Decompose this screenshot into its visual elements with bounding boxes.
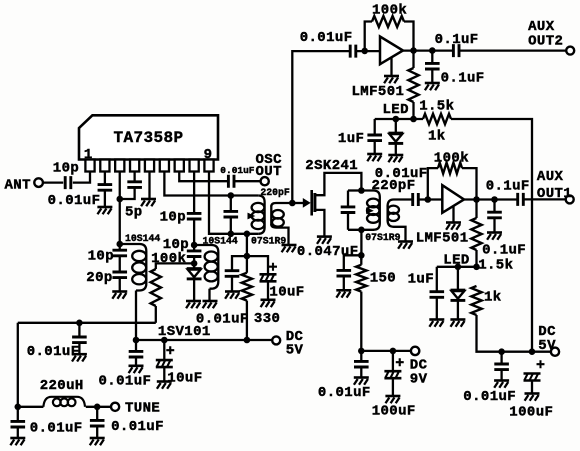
- ground (0.047uF): [336, 289, 351, 292]
- node 9V rail / 0.01uF: [358, 348, 365, 355]
- capacitor 0.1uF (AUX1 coupling): [518, 193, 524, 206]
- wire pin5 down: [148, 172, 150, 199]
- svg-text:TUNE: TUNE: [125, 401, 160, 417]
- capacitor 0.01uF (osc bias): [225, 271, 240, 277]
- wire cap to OSC OUT terminal: [234, 180, 261, 182]
- ground (0.01uF tune right): [90, 437, 105, 440]
- node 5V rail / 100uF (right): [529, 348, 536, 355]
- svg-text:+: +: [536, 357, 545, 374]
- wire LED node (ch2): [437, 266, 477, 268]
- wire branch to 0.01uF (osc): [232, 256, 247, 271]
- svg-text:OUT2: OUT2: [528, 34, 563, 50]
- ground (0.01uF tune bus): [72, 353, 87, 356]
- resistor 150: [356, 265, 366, 292]
- terminal DC 5V (right): [551, 348, 559, 356]
- ground (T1 secondary): [282, 244, 297, 247]
- node 5V/0.01uF (left): [133, 337, 140, 344]
- wire tank bottom down: [360, 230, 362, 260]
- svg-text:LMF501: LMF501: [416, 231, 469, 247]
- wire opamp2 gnd stem: [452, 206, 454, 222]
- svg-text:07S1R9: 07S1R9: [365, 232, 400, 243]
- capacitor 10uF (osc bias): [260, 274, 277, 281]
- svg-text:1uF: 1uF: [338, 131, 364, 147]
- terminal ANT: [34, 178, 43, 187]
- transformer T2 07S1R9 primary: [361, 191, 379, 230]
- wire 5V rail left: [136, 339, 272, 341]
- node pin3/5p junction: [116, 196, 123, 203]
- capacitor 0.01uF (tune bus): [78, 323, 80, 337]
- transformer T2 slug arrow: [366, 207, 374, 214]
- node opamp2 output: [473, 196, 480, 203]
- wire 100k to tune bus: [155, 306, 157, 323]
- capacitor 0.01uF (OSC OUT coupling): [228, 175, 234, 188]
- ground (LED1): [388, 154, 403, 157]
- terminal DC 9V: [411, 347, 419, 355]
- capacitor 0.1uF shunt (opamp1 out): [431, 51, 433, 64]
- svg-text:100uF: 100uF: [509, 405, 553, 421]
- wire 10p to varicap node: [193, 257, 195, 269]
- capacitor (FET tank): [347, 191, 349, 207]
- wire branch to 0.047uF cap: [344, 255, 362, 270]
- wire C 10p to pin1: [73, 172, 90, 183]
- ground (varicap): [186, 300, 201, 303]
- resistor 100k feedback (opamp2): [428, 168, 438, 199]
- svg-text:220pF: 220pF: [260, 187, 290, 198]
- wire pin2 cap to ground: [104, 190, 106, 207]
- svg-text:0.047uF: 0.047uF: [297, 244, 359, 260]
- svg-text:0.01uF: 0.01uF: [463, 389, 516, 405]
- node 5V/10uF (left): [161, 337, 168, 344]
- capacitor 0.01uF (5V left): [135, 340, 137, 351]
- wire varicap node to 100k: [156, 263, 194, 269]
- capacitor 10p (pin8 upper): [187, 213, 202, 219]
- ground (1uF ch1): [367, 153, 382, 156]
- wire osc coil to ground: [208, 289, 210, 301]
- svg-text:+: +: [166, 343, 175, 360]
- node 5V rail / 0.01uF (right): [498, 348, 505, 355]
- wire 1k to 5V rail (ch2): [477, 315, 552, 352]
- svg-text:10p: 10p: [160, 210, 186, 226]
- svg-text:AUX: AUX: [537, 169, 564, 185]
- capacitor 10p (antenna coupling): [65, 176, 71, 189]
- ground (T2 secondary): [398, 240, 413, 243]
- wire cap to opamp1 input: [356, 50, 380, 52]
- transistor Q1 2SK241 gate wire: [292, 202, 303, 204]
- wire 330 to 5V rail: [246, 301, 248, 340]
- wire opamp1 output: [403, 49, 453, 51]
- svg-text:0.1uF: 0.1uF: [486, 179, 530, 195]
- capacitor 10p (divider top): [112, 250, 127, 256]
- node tune left: [14, 404, 21, 411]
- IC U1 pin 5: [145, 160, 154, 172]
- capacitor 0.01uF/220pF (opamp2 input): [413, 193, 419, 206]
- capacitor 0.047uF: [337, 270, 352, 276]
- ground (0.01uF 9V): [354, 376, 369, 379]
- svg-text:07S1R9: 07S1R9: [251, 236, 286, 247]
- svg-text:TA7358P: TA7358P: [113, 129, 183, 147]
- node LED (ch2): [455, 264, 462, 271]
- capacitor 1uF (ch2): [436, 267, 438, 292]
- svg-text:+: +: [395, 355, 404, 372]
- capacitor 100uF (5V right): [524, 374, 541, 381]
- ground (0.1uF shunt ch2): [487, 231, 502, 234]
- svg-text:1uF: 1uF: [408, 272, 434, 288]
- capacitor 5p (pin4): [127, 182, 142, 188]
- wire 9V rail: [361, 350, 411, 352]
- IC U1 pin 3: [115, 160, 124, 172]
- node 330 branch: [244, 253, 251, 260]
- svg-text:100uF: 100uF: [372, 404, 416, 420]
- wire 150 to 9V rail: [360, 292, 362, 351]
- svg-text:LED: LED: [383, 102, 409, 118]
- node tank top / 220pF: [228, 192, 235, 199]
- ground (100uF 9V): [385, 395, 400, 398]
- terminal AUX OUT1: [566, 195, 574, 203]
- wire 220uH to TUNE terminal: [86, 406, 111, 408]
- node output/0.1uF shunt: [429, 47, 436, 54]
- node TUNE/0.01uF: [94, 404, 101, 411]
- svg-text:10uF: 10uF: [269, 285, 304, 301]
- capacitor 10p (pin8 lower): [187, 251, 202, 257]
- terminal OSC OUT: [261, 177, 269, 185]
- svg-text:10p: 10p: [88, 249, 114, 265]
- ground (LED2): [450, 318, 465, 321]
- svg-text:220uH: 220uH: [40, 378, 84, 394]
- node pin8 / osc coil top: [191, 242, 198, 249]
- inductor L1 10S144 antenna coil: [120, 244, 147, 291]
- IC U1 pin 6: [160, 160, 169, 172]
- wire opamp2 output: [464, 198, 517, 200]
- svg-text:2SK241: 2SK241: [305, 158, 358, 174]
- op-amp U3 LMF501 triangle: [442, 185, 464, 213]
- resistor 1.5k (ch2): [475, 200, 477, 219]
- wire pin6 to oscillator tank top: [164, 172, 258, 196]
- svg-text:0.01uF: 0.01uF: [27, 344, 80, 360]
- capacitor 0.1uF shunt (opamp2 out): [493, 200, 495, 213]
- wire pin3 down: [119, 172, 121, 251]
- capacitor 1uF (ch1): [374, 119, 376, 135]
- wire 1k to right rail: [451, 119, 532, 352]
- node T2 tank bottom: [358, 227, 365, 234]
- IC U1 pin 4: [130, 160, 139, 172]
- svg-text:1.5k: 1.5k: [478, 258, 513, 274]
- ground (pin2 cap): [97, 206, 112, 209]
- node opamp1 input: [361, 48, 368, 55]
- svg-text:1k: 1k: [428, 129, 446, 145]
- ground (1uF ch2): [429, 318, 444, 321]
- svg-text:LMF501: LMF501: [352, 84, 405, 100]
- svg-text:5V: 5V: [538, 338, 556, 354]
- ground (10uF osc): [261, 298, 276, 301]
- wire tank top to tank cap: [348, 189, 361, 191]
- wire cap to opamp2 input: [418, 198, 442, 200]
- transformer T1 07S1R9 primary: [258, 196, 264, 234]
- svg-text:100k: 100k: [434, 151, 469, 167]
- node 5V/330: [244, 337, 251, 344]
- wire tank bottom branch down (330): [246, 234, 248, 273]
- wire branch to 10uF (osc): [247, 256, 268, 274]
- node 9V rail / 100uF: [390, 348, 397, 355]
- node 220pF bottom: [228, 231, 235, 238]
- svg-text:0.01uF: 0.01uF: [111, 419, 164, 435]
- ground (divider): [112, 290, 127, 293]
- Q1 channel bar: [313, 193, 316, 212]
- svg-text:5V: 5V: [286, 343, 304, 359]
- capacitor 0.01uF (pin2): [98, 185, 113, 191]
- terminal TUNE: [111, 403, 119, 411]
- capacitor 0.01uF (5V right): [500, 352, 502, 364]
- LED D1: [395, 119, 397, 133]
- node FET gate / T1 secondary: [289, 200, 296, 207]
- ground (opamp1): [384, 75, 399, 78]
- capacitor 0.1uF (AUX2 coupling): [453, 44, 459, 57]
- op-amp U2 LMF501 triangle: [380, 37, 403, 65]
- node varicap/100k junction: [191, 260, 198, 267]
- wire between divider caps: [119, 256, 121, 272]
- terminal DC 5V (left): [272, 336, 280, 344]
- wire tank bottom: [348, 229, 374, 231]
- ground (0.01uF osc bias): [225, 290, 240, 293]
- svg-text:0.01uF: 0.01uF: [99, 374, 152, 390]
- svg-text:0.01uF: 0.01uF: [300, 30, 353, 46]
- node 1.5k/1k (ch2): [473, 264, 480, 271]
- resistor 100k feedback (opamp1): [365, 22, 372, 51]
- svg-text:100k: 100k: [372, 3, 407, 19]
- wire branch to 150: [360, 255, 362, 264]
- svg-text:OUT: OUT: [256, 164, 282, 180]
- transformer T1 secondary: [271, 203, 292, 245]
- svg-text:10p: 10p: [53, 161, 79, 177]
- svg-text:1k: 1k: [484, 290, 502, 306]
- terminal AUX OUT2: [566, 47, 574, 55]
- svg-text:0.01uF: 0.01uF: [196, 312, 249, 328]
- ground (0.01uF 5V left): [129, 364, 144, 367]
- resistor 330: [242, 273, 252, 301]
- transformer T1 slug arrow: [248, 213, 256, 220]
- node T2 tank top: [358, 187, 365, 194]
- wire 0.047uF to ground: [343, 276, 345, 290]
- IC U1 pin 7: [175, 160, 184, 172]
- node tune/0.01uF: [76, 320, 83, 327]
- inductor 220uH: [43, 397, 85, 407]
- wire antenna coil bottom to 5V rail: [135, 291, 137, 341]
- IC U1 pin 8: [190, 160, 199, 172]
- resistor 1k (ch1): [423, 114, 451, 124]
- wire tune bus: [18, 322, 156, 324]
- svg-text:OUT1: OUT1: [537, 186, 572, 202]
- wire varicap to ground: [193, 280, 195, 301]
- capacitor 0.01uF (opamp1 input): [350, 45, 356, 58]
- svg-text:0.1uF: 0.1uF: [482, 243, 526, 259]
- svg-text:0.1uF: 0.1uF: [435, 32, 479, 48]
- ground (0.01uF tune left): [10, 437, 25, 440]
- ground (100uF 5V right): [525, 392, 540, 395]
- svg-text:330: 330: [254, 311, 280, 327]
- node tank bottom branch: [244, 231, 251, 238]
- svg-text:10S144: 10S144: [125, 233, 160, 244]
- svg-text:0.01uF: 0.01uF: [318, 385, 371, 401]
- ground (opamp2): [446, 221, 461, 224]
- svg-text:0.1uF: 0.1uF: [441, 71, 485, 87]
- capacitor 100uF (9V rail): [392, 351, 394, 371]
- wire to 220uH: [18, 406, 44, 408]
- capacitor 20p (divider bottom): [112, 272, 127, 278]
- svg-text:0.01uF: 0.01uF: [48, 193, 101, 209]
- ground (10uF 5V left): [157, 380, 172, 383]
- svg-text:0.01uF: 0.01uF: [220, 165, 255, 176]
- resistor 1k (ch2): [471, 286, 481, 315]
- wire to AUX OUT2 terminal: [459, 49, 566, 51]
- wire pin4 down: [133, 172, 135, 182]
- node 0.047uF branch: [358, 252, 365, 259]
- svg-text:ANT: ANT: [5, 178, 31, 194]
- svg-text:0.01uF: 0.01uF: [30, 421, 83, 437]
- ground (0.01uF 5V right): [494, 379, 509, 382]
- svg-text:220pF: 220pF: [372, 178, 416, 194]
- capacitor 10uF (5V left): [163, 340, 165, 360]
- wire 20p to ground: [119, 278, 121, 292]
- capacitor 0.01uF (tune right): [96, 407, 98, 421]
- inductor L2 10S144 osc coil: [194, 245, 218, 289]
- Q1 gate arrow: [303, 198, 311, 208]
- wire 10p to coil node: [193, 219, 195, 251]
- ground (Q1 source): [317, 235, 332, 238]
- capacitor 220pF (osc tank): [230, 196, 232, 212]
- wire tune bus left down: [17, 323, 19, 421]
- svg-text:150: 150: [370, 271, 396, 287]
- Q1 gate bar: [310, 190, 313, 216]
- Q1 source wire: [315, 210, 325, 236]
- wire to AUX OUT1 terminal: [523, 198, 565, 200]
- svg-text:9V: 9V: [410, 372, 428, 388]
- wire LED node (ch1): [375, 118, 423, 120]
- wire pin2 down: [104, 172, 106, 185]
- wire tank bottom from pin9: [209, 172, 258, 234]
- resistor 100k (varicap bias): [151, 269, 161, 306]
- Q1 drain wire: [315, 173, 362, 195]
- resistor 1.5k (ch1): [412, 51, 414, 68]
- svg-text:100k: 100k: [151, 251, 186, 267]
- wire opamp1 gnd stem: [390, 58, 392, 76]
- node opamp1 output: [410, 47, 417, 54]
- IC U1 pin 2: [100, 160, 109, 172]
- ground (0.1uF shunt): [425, 82, 440, 85]
- capacitor 0.01uF (9V rail): [360, 351, 362, 362]
- ground (pin5): [141, 198, 156, 201]
- varactor diode 1SV101: [187, 267, 202, 270]
- svg-text:5p: 5p: [125, 205, 143, 221]
- ground (osc coil): [203, 300, 218, 303]
- wire pin7 to osc out cap: [179, 172, 228, 182]
- wire 5p cap to pin3 node: [120, 187, 135, 199]
- node pin3/coil junction: [116, 241, 123, 248]
- node LED (ch1): [393, 116, 400, 123]
- node output/0.1uF shunt (ch2): [491, 196, 498, 203]
- transformer T2 secondary: [388, 200, 413, 242]
- LED D2: [457, 267, 459, 290]
- svg-text:20p: 20p: [86, 270, 112, 286]
- wire ANT to C 10p: [43, 181, 63, 183]
- svg-text:10uF: 10uF: [167, 371, 202, 387]
- capacitor 0.01uF (tune left): [11, 421, 26, 427]
- node 1.5k/1k (ch1): [410, 116, 417, 123]
- IC U1 pin 9: [204, 160, 213, 172]
- IC U1 pin 1: [85, 160, 94, 172]
- wire pin8 down: [193, 172, 195, 214]
- IC U1 TA7358P body: [79, 115, 218, 159]
- node opamp2 input: [425, 196, 432, 203]
- wire gate node up to AUX2 input cap: [292, 51, 350, 203]
